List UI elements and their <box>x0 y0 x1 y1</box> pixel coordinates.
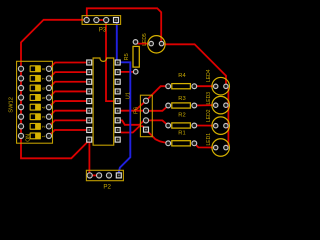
svg-text:P6: P6 <box>134 107 140 114</box>
wire P6 pad4 to R1 left pad <box>146 130 168 144</box>
pad SW12 pin 4 left <box>18 95 23 100</box>
svg-text:P3: P3 <box>99 27 107 34</box>
pad U1 pin R3 <box>115 79 120 84</box>
pad SW12 pin 5 left <box>18 105 23 110</box>
pad SW12 pin 9 right <box>46 133 51 138</box>
pad U1 pin R2 <box>115 70 120 75</box>
wire P6 pad3 to R2 left pad <box>146 120 168 125</box>
wire SW12 pos5 to U1 pin L4 <box>49 91 87 97</box>
svg-text:R5: R5 <box>124 53 130 60</box>
label R3 <box>178 96 185 102</box>
pad SW12 pin 8 left <box>18 133 23 138</box>
label SW12 position number 7 <box>41 77 46 80</box>
svg-text:ON: ON <box>25 134 31 142</box>
pad P3 pin 1 square <box>114 18 119 23</box>
label R4 <box>178 73 186 79</box>
pad R5 bottom <box>133 69 138 74</box>
pad U1 pin R1 <box>115 60 120 65</box>
pad SW12 pin 6 left <box>18 114 23 119</box>
pad P3 pin 2 <box>104 17 109 22</box>
pad R1 left <box>166 141 171 146</box>
label R1 <box>178 130 185 136</box>
wire R1 to LED1 anode <box>194 143 215 147</box>
svg-text:LED4: LED4 <box>206 69 212 82</box>
pad U1 pin L6 <box>87 108 92 113</box>
pad LED2 cathode <box>224 124 228 128</box>
resistor R2 body <box>172 123 191 128</box>
pad R5 top <box>133 40 138 45</box>
pad U1 pin L3 <box>87 79 92 84</box>
pad P2 pin 2 <box>97 173 102 178</box>
svg-text:R4: R4 <box>178 73 186 79</box>
pad U1 pin L2 <box>87 70 92 75</box>
switch actuator SW12 pos2 <box>30 123 41 130</box>
pad U1 pin L5 <box>87 99 92 104</box>
pad U1 pin R8 <box>115 127 120 132</box>
label P2 <box>103 184 111 191</box>
label R5 <box>124 53 130 60</box>
svg-text:LED1: LED1 <box>206 133 212 146</box>
svg-text:SW12: SW12 <box>8 97 14 113</box>
pad LED4 cathode <box>224 84 228 88</box>
LED LED1 circle <box>212 139 230 157</box>
pad U1 pin L9 <box>87 137 92 142</box>
LED LED2 circle <box>212 117 230 135</box>
pad SW12 pin 13 right <box>46 95 51 100</box>
wire U1 pin R6 to P6 pad2 <box>117 110 146 112</box>
wire SW12 pos4 to U1 pin L5 <box>49 101 87 107</box>
wire SW12 pos3 to U1 pin L6 <box>49 111 87 117</box>
pad P6 pin 2 <box>143 108 148 113</box>
wire SW12 pad8 ground run to U1 pin L9 <box>21 136 89 158</box>
wire U1 pin L9 down to P2 pad1 <box>88 140 90 176</box>
switch actuator SW12 pos6 <box>30 84 41 91</box>
label SW12 position number 1 <box>41 135 46 138</box>
wire U1 pin R2 to R5 bottom pad <box>117 71 136 73</box>
wire bottom-layer P3 pad4 down to U1 pin R1 <box>116 20 118 60</box>
label P3 <box>99 27 107 34</box>
resistor R5 body <box>133 46 139 67</box>
op-amp-driver IC U1 body with pin1 notch <box>93 58 114 145</box>
switch actuator SW12 pos8 <box>30 65 41 72</box>
pad LED1 anode <box>214 145 218 149</box>
switch actuator SW12 pos1 <box>30 132 41 139</box>
switch actuator SW12 pos7 <box>30 75 41 82</box>
pad LED4 anode <box>214 84 218 88</box>
pad LED2 anode <box>214 124 218 128</box>
wire LED5 cathode along top right to LED4 <box>162 44 227 86</box>
resistor R4 body <box>172 84 191 89</box>
pad U1 pin R5 <box>115 99 120 104</box>
wire P6 pad2 to R3 left pad <box>146 106 168 111</box>
label SW12 position number 3 <box>41 115 46 118</box>
wire LED4 to LED3 cathode chain <box>226 86 229 105</box>
pad P6 pin 1 <box>143 98 148 103</box>
label SW12 position number 8 <box>41 67 46 70</box>
pad SW12 pin 15 right <box>46 76 51 81</box>
pad P2 pin 4 square <box>116 173 121 178</box>
LED LED3 circle <box>212 96 230 114</box>
label ON <box>25 134 31 142</box>
wire U1 pin R8 to P6 pad4 <box>117 126 146 132</box>
pad SW12 pin 1 left <box>18 66 23 71</box>
label SW12 <box>8 97 14 113</box>
pad R1 right <box>192 141 197 146</box>
wire P3 pad3 down to U1 pin R5 <box>106 20 117 101</box>
pad P2 pin 3 <box>106 173 111 178</box>
svg-text:R2: R2 <box>178 112 185 118</box>
label SW12 position number 4 <box>41 106 46 109</box>
wire P6 pad1 to R4 left pad <box>146 86 168 101</box>
label LED2 <box>206 109 212 122</box>
label P6 <box>134 107 140 114</box>
svg-text:R1: R1 <box>178 130 185 136</box>
connector P6 outline <box>140 95 152 137</box>
pad P3 pin 3 <box>94 17 99 22</box>
pad R2 right <box>192 123 197 128</box>
pad R4 left <box>166 84 171 89</box>
wire branch P6 pad2 to P6 pad1 <box>135 101 146 111</box>
dip-switch SW12 body <box>17 61 53 143</box>
wire R3 to LED3 anode <box>194 104 215 106</box>
pad SW12 pin 16 right <box>46 66 51 71</box>
label LED4 <box>206 69 212 82</box>
svg-text:LED2: LED2 <box>206 109 212 122</box>
connector P2 outline <box>86 170 123 180</box>
wire LED2 to LED1 cathode chain <box>226 126 229 148</box>
wire SW12 pos2 to U1 pin L7 <box>49 120 87 126</box>
pad LED5 anode <box>149 41 153 45</box>
label SW12 position number 6 <box>41 87 46 90</box>
pad SW12 pin 3 left <box>18 85 23 90</box>
wire LED3 to LED2 cathode chain <box>226 105 229 126</box>
pad U1 pin R7 <box>115 118 120 123</box>
pad P6 pin 4 square <box>144 127 149 132</box>
pad SW12 pin 7 left <box>18 124 23 129</box>
wire SW12 pad1 to P3 pad1 <box>21 20 87 69</box>
connector P3 outline <box>82 16 121 25</box>
pad SW12 pin 14 right <box>46 85 51 90</box>
label LED3 <box>206 92 212 105</box>
pad P2 pin 1 <box>87 173 92 178</box>
label LED5 <box>142 33 148 46</box>
pad R2 left <box>166 123 171 128</box>
pad SW12 pin 12 right <box>46 105 51 110</box>
wire R2 to LED2 anode <box>194 125 215 127</box>
pad R3 left <box>166 103 171 108</box>
pad R3 right <box>192 103 197 108</box>
pad U1 pin L4 <box>87 89 92 94</box>
pad U1 pin L7 <box>87 118 92 123</box>
label SW12 position number 5 <box>41 96 46 99</box>
label R2 <box>178 112 185 118</box>
switch actuator SW12 pos5 <box>30 94 41 101</box>
label SW12 position number 2 <box>41 125 46 128</box>
switch actuator SW12 pos4 <box>30 104 41 111</box>
pad LED3 anode <box>214 103 218 107</box>
wire SW12 pos6 to U1 pin L3 <box>49 82 87 88</box>
wire R5 top pad to LED5 anode <box>136 42 152 44</box>
svg-text:LED5: LED5 <box>142 33 148 46</box>
label U1 <box>126 92 132 99</box>
wire SW12 input bus vertical <box>20 69 22 136</box>
svg-text:R3: R3 <box>178 96 185 102</box>
label LED1 <box>206 133 212 146</box>
pad LED3 cathode <box>224 103 228 107</box>
wire SW12 pos8 to U1 pin L1 <box>49 63 87 69</box>
pad P6 pin 3 <box>143 118 148 123</box>
LED LED4 circle <box>212 77 230 95</box>
svg-text:P2: P2 <box>103 184 111 191</box>
resistor R1 body <box>172 141 191 146</box>
wire bottom-layer U1 pin R1 to P2 pad4 <box>117 62 130 175</box>
wire U1 pin R7 to P6 pad3 <box>117 120 146 124</box>
pad U1 pin R9 <box>115 137 120 142</box>
svg-text:LED3: LED3 <box>206 92 212 105</box>
pad LED1 cathode <box>224 145 228 149</box>
wire SW12 pos1 to U1 pin L8 <box>49 130 87 136</box>
pad SW12 pin 2 left <box>18 76 23 81</box>
pad U1 pin R6 <box>115 108 120 113</box>
pad U1 pin L1 <box>87 60 92 65</box>
svg-text:U1: U1 <box>126 92 132 99</box>
pad SW12 pin 10 right <box>46 124 51 129</box>
pad SW12 pin 11 right <box>46 114 51 119</box>
resistor R3 body <box>172 103 191 108</box>
pad LED5 cathode <box>159 41 163 45</box>
LED LED5 circle <box>148 36 165 53</box>
pad P3 pin 4 <box>84 17 89 22</box>
pad U1 pin R4 <box>115 89 120 94</box>
wire R4 to LED4 anode <box>194 85 215 87</box>
wire P2 pad1 to pad2 bridge <box>90 174 99 176</box>
wire P3 pad2 to pad3 bridge <box>96 19 106 21</box>
pad U1 pin L8 <box>87 127 92 132</box>
wire P3 pad1 up and top run to LED5 cathode <box>87 8 161 43</box>
pad R4 right <box>192 84 197 89</box>
switch actuator SW12 pos3 <box>30 113 41 120</box>
wire SW12 pos7 to U1 pin L2 <box>49 72 87 78</box>
